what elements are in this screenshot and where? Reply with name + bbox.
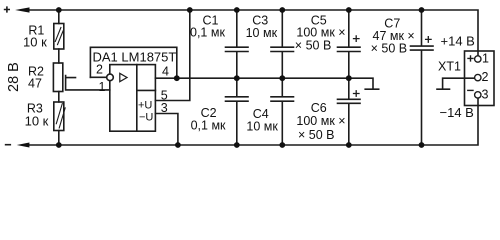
svg-text:2: 2 (482, 70, 489, 84)
svg-text:10 к: 10 к (25, 114, 49, 129)
svg-text:3: 3 (482, 88, 489, 102)
svg-text:100 мк ×: 100 мк × (296, 114, 345, 128)
svg-text:DA1 LM1875T: DA1 LM1875T (93, 49, 177, 64)
svg-text:× 50 В: × 50 В (295, 38, 332, 52)
svg-text:+U: +U (138, 99, 152, 111)
svg-text:4: 4 (162, 64, 169, 78)
svg-text:47: 47 (28, 77, 42, 91)
svg-text:10 мк: 10 мк (246, 26, 278, 40)
svg-text:2: 2 (96, 63, 103, 77)
svg-text:1: 1 (99, 80, 106, 94)
svg-text:× 50 В: × 50 В (371, 42, 408, 56)
svg-text:3: 3 (161, 101, 168, 115)
svg-text:−U: −U (139, 111, 153, 123)
svg-text:XT1: XT1 (438, 59, 461, 73)
svg-text:× 50 В: × 50 В (298, 128, 335, 142)
svg-text:1: 1 (482, 52, 489, 66)
svg-text:−14 В: −14 В (440, 105, 474, 120)
svg-text:C6: C6 (311, 101, 327, 115)
svg-text:+14 В: +14 В (441, 33, 475, 48)
svg-text:28 В: 28 В (6, 62, 22, 92)
svg-text:0,1 мк: 0,1 мк (190, 26, 225, 40)
svg-text:0,1 мк: 0,1 мк (191, 119, 226, 133)
svg-text:10 к: 10 к (23, 34, 47, 49)
svg-text:10 мк: 10 мк (246, 120, 278, 134)
